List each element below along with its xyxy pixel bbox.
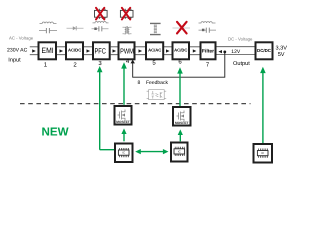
svg-text:Feedback: Feedback: [146, 80, 168, 86]
svg-text:DC/DC: DC/DC: [257, 48, 272, 53]
svg-text:230V AC: 230V AC: [7, 47, 28, 53]
svg-text:EMI: EMI: [42, 46, 54, 55]
svg-text:8: 8: [138, 80, 141, 86]
svg-text:Filter: Filter: [202, 48, 214, 54]
svg-text:MOSFET: MOSFET: [116, 120, 130, 124]
svg-text:5V: 5V: [278, 52, 285, 58]
svg-text:IC: IC: [261, 151, 264, 155]
svg-text:3,3V: 3,3V: [276, 46, 288, 52]
svg-text:PWM: PWM: [120, 47, 134, 56]
svg-text:Input: Input: [8, 57, 21, 63]
svg-text:PFC: PFC: [95, 46, 107, 55]
svg-text:IC: IC: [178, 149, 181, 153]
svg-text:NEW: NEW: [42, 125, 69, 138]
svg-text:AC - Voltage: AC - Voltage: [9, 36, 34, 41]
svg-text:AC/AC: AC/AC: [148, 48, 161, 53]
svg-text:AC/DC: AC/DC: [68, 48, 81, 53]
svg-text:AC/DC: AC/DC: [174, 48, 187, 53]
svg-text:MOSFET: MOSFET: [175, 121, 189, 125]
svg-text:Output: Output: [233, 61, 250, 67]
svg-text:12V: 12V: [231, 49, 241, 55]
svg-text:DC - Voltage: DC - Voltage: [228, 37, 253, 42]
svg-text:IC: IC: [122, 151, 125, 155]
